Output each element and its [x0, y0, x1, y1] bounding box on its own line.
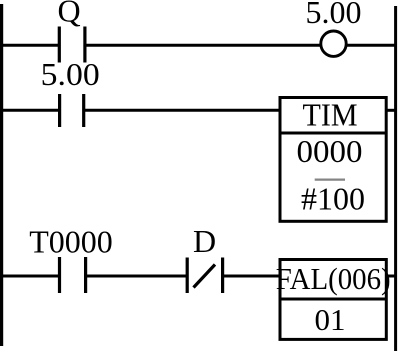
svg-text:5.00: 5.00 — [306, 0, 362, 30]
FAL block — [279, 260, 386, 340]
contact 5.00 — [60, 94, 84, 127]
coil 5.00 — [321, 31, 346, 56]
wire rung2 middle — [84, 109, 280, 112]
svg-text:#100: #100 — [301, 181, 365, 217]
wire rung1 middle — [85, 44, 321, 47]
contact T0000 — [60, 257, 86, 293]
contact Q — [59, 27, 85, 63]
wire rung2 left — [0, 109, 60, 112]
NC contact D — [187, 258, 222, 294]
wire rung2 right — [386, 109, 397, 112]
svg-text:T0000: T0000 — [29, 224, 113, 260]
svg-text:FAL(006): FAL(006) — [276, 261, 391, 296]
wire rung3 left — [0, 275, 60, 278]
svg-text:5.00: 5.00 — [41, 56, 100, 92]
right power rail — [394, 6, 397, 351]
svg-text:01: 01 — [315, 302, 346, 337]
wire rung3 right — [385, 275, 397, 278]
svg-text:D: D — [193, 223, 216, 259]
left power rail — [0, 4, 3, 346]
svg-text:0000: 0000 — [297, 133, 363, 169]
wire rung3 middle2 — [223, 275, 280, 278]
wire rung1 right — [347, 44, 398, 47]
wire rung1 left — [0, 44, 59, 47]
wire rung3 middle — [86, 275, 188, 278]
svg-text:TIM: TIM — [303, 96, 358, 132]
overline (BCD marker) — [315, 179, 345, 181]
svg-text:Q: Q — [57, 0, 80, 29]
timer block TIM — [279, 98, 387, 222]
